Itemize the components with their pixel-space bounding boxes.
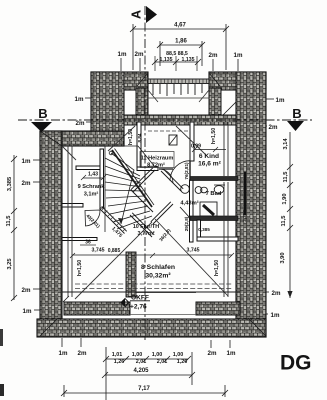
svg-text:43(2,01): 43(2,01) <box>85 213 101 229</box>
svg-text:1m: 1m <box>59 350 68 357</box>
headroom line top rooms <box>148 130 190 132</box>
svg-text:2m: 2m <box>22 287 31 294</box>
svg-text:2m: 2m <box>209 52 218 59</box>
svg-text:11,5: 11,5 <box>283 171 289 183</box>
hip: notch left small <box>148 90 158 102</box>
section marker A letter <box>129 10 143 19</box>
wall: schrank east <box>100 149 104 208</box>
svg-text:1,86: 1,86 <box>175 39 187 45</box>
svg-text:1m: 1m <box>22 158 31 165</box>
staircase <box>105 146 155 232</box>
svg-text:1,26: 1,26 <box>114 359 125 365</box>
shower in bad <box>200 202 217 216</box>
svg-text:h=1,50: h=1,50 <box>211 128 217 144</box>
svg-text:30,32m²: 30,32m² <box>145 273 171 280</box>
inner dim 0,99 <box>191 144 226 153</box>
wall: store south <box>197 237 238 241</box>
room label flur <box>133 224 159 237</box>
wall: stair chamfer SE lower <box>131 190 153 212</box>
scan smudge bottom left <box>0 384 4 396</box>
bad door diagonal <box>180 207 190 218</box>
inner dim 1,475 diagonal <box>110 226 123 239</box>
svg-text:4,205: 4,205 <box>133 368 149 374</box>
wall dim 36(2,8) diagonal <box>158 227 171 242</box>
hip: bedroom left leg <box>75 222 152 299</box>
wall: corridor north boundary <box>62 238 97 241</box>
svg-text:0,99: 0,99 <box>191 144 201 150</box>
svg-text:1m: 1m <box>75 96 84 103</box>
svg-text:2m: 2m <box>208 350 217 357</box>
svg-text:3,745: 3,745 <box>187 248 200 254</box>
flur column circle <box>181 185 190 194</box>
svg-text:h=1,50: h=1,50 <box>77 260 83 276</box>
dark edge line at bad east <box>244 172 246 215</box>
door arc heizraum <box>159 169 173 183</box>
2m dashed line bottom <box>75 284 232 289</box>
wall: heizraum west <box>137 122 141 170</box>
wall: top outer left block <box>91 72 148 90</box>
chimney symbol <box>169 135 177 145</box>
section marker A triangle <box>146 6 157 23</box>
wall: left step <box>40 131 124 146</box>
svg-text:2,01: 2,01 <box>157 359 168 365</box>
svg-text:8,72m²: 8,72m² <box>147 162 165 169</box>
svg-text:11,5: 11,5 <box>6 215 12 227</box>
wall: bottom outer <box>37 319 266 337</box>
hip: bedroom right leg <box>155 219 228 296</box>
wall dim 8,84 <box>137 133 142 142</box>
svg-text:2m: 2m <box>78 350 87 357</box>
svg-text:1,00: 1,00 <box>132 352 143 358</box>
wall: heizraum south stub <box>137 167 158 171</box>
left dimension chain <box>11 155 17 301</box>
svg-text:2m: 2m <box>272 290 281 297</box>
svg-text:7 Bad: 7 Bad <box>206 191 222 197</box>
svg-text:9 Schrank: 9 Schrank <box>78 184 106 190</box>
svg-text:8,84: 8,84 <box>137 133 142 142</box>
bottom contour labels <box>59 338 68 357</box>
section marker B left letter <box>38 106 47 121</box>
wall: flur chamfer low <box>130 213 154 237</box>
wall: hall/kind divider <box>190 122 194 161</box>
svg-text:1m: 1m <box>276 97 285 104</box>
svg-text:1m: 1m <box>271 312 280 319</box>
svg-text:1,90: 1,90 <box>282 193 288 204</box>
wall: schrank north <box>76 166 100 170</box>
bedroom floor edge <box>62 291 240 293</box>
svg-text:1,43: 1,43 <box>88 172 98 178</box>
wall: store west <box>197 220 201 238</box>
wall: stair chamfer NE <box>131 168 155 192</box>
corner hip marks on top walls <box>91 72 266 115</box>
wall: right outer <box>236 72 266 337</box>
room label schrank <box>78 184 106 198</box>
inner dim 36 <box>80 240 96 246</box>
svg-text:B: B <box>38 106 47 121</box>
wall: top outer right block <box>209 72 266 90</box>
top dimension 88,5/1,135 chain <box>152 51 201 71</box>
right contour labels <box>266 97 285 104</box>
top dimension 1,86 <box>157 41 205 66</box>
bottom dimension 4,205 <box>102 347 195 400</box>
wall: schlafen west duct <box>126 252 136 297</box>
svg-text:h=1,50: h=1,50 <box>128 129 134 145</box>
stair arrow <box>109 151 134 224</box>
room label kind <box>198 153 222 168</box>
svg-text:A: A <box>129 10 143 19</box>
wall: flur SE chamfer <box>151 202 173 224</box>
label DG <box>280 352 312 375</box>
svg-text:3,77m²: 3,77m² <box>137 231 154 237</box>
right chain arrow <box>287 291 292 298</box>
top contour labels 1m 2m left <box>118 51 144 71</box>
svg-text:OKFF: OKFF <box>131 295 149 302</box>
bottom dimension 7,17 <box>61 385 228 397</box>
right dimension chain <box>287 132 293 298</box>
svg-text:16,6 m²: 16,6 m² <box>198 161 222 168</box>
inner dim 3,745 pair <box>70 248 234 259</box>
headroom text h=1,50 top right <box>211 128 217 144</box>
upper-left contour labels 1m 2m <box>75 96 91 103</box>
svg-text:2,01: 2,01 <box>136 359 147 365</box>
svg-text:2m: 2m <box>76 120 85 127</box>
wall: bedroom south sill wall left <box>64 302 130 315</box>
h=1.50 line kind room <box>224 122 228 176</box>
svg-text:h=1,50: h=1,50 <box>214 260 220 276</box>
wall: schrank south <box>62 204 83 208</box>
svg-text:11,5: 11,5 <box>281 215 287 227</box>
svg-text:36: 36 <box>85 240 91 246</box>
section line B-B horizontal <box>18 119 312 121</box>
h=1.50 line right <box>224 182 228 297</box>
section marker B left triangle <box>31 122 52 132</box>
svg-text:76(2,81): 76(2,81) <box>184 162 189 180</box>
wall: bad south <box>190 216 238 221</box>
svg-text:2m: 2m <box>22 180 31 187</box>
corner tick <box>63 296 69 302</box>
svg-text:DG: DG <box>280 352 312 375</box>
section marker B right letter <box>292 106 301 121</box>
door arc kind <box>170 161 190 181</box>
wall: flur east chamfer <box>161 169 183 191</box>
svg-text:3,385: 3,385 <box>7 176 13 191</box>
svg-text:1,26: 1,26 <box>177 359 188 365</box>
top contour labels 2m 1m right <box>209 52 243 71</box>
inner dim 43(2,01) diagonal <box>85 213 101 229</box>
hip: kind room diagonal <box>176 126 206 155</box>
wall dim 0,385 small <box>198 227 210 232</box>
inner dim 1,43 <box>81 172 106 181</box>
wall: left outer <box>40 131 62 336</box>
svg-text:1m: 1m <box>227 350 236 357</box>
balcony door lines middle <box>130 293 196 315</box>
h=1.50 line left <box>68 146 72 297</box>
terrace parapet with railing posts <box>148 79 209 98</box>
headroom text h=1,50 bottom left <box>77 260 83 276</box>
svg-text:1,00: 1,00 <box>173 352 184 358</box>
room label heizraum <box>140 152 174 169</box>
door arc schrank <box>85 210 100 226</box>
svg-text:1,00: 1,00 <box>152 352 163 358</box>
svg-text:3,385: 3,385 <box>242 210 247 222</box>
svg-text:8 Schlafen: 8 Schlafen <box>141 264 175 271</box>
svg-text:2m: 2m <box>269 124 278 131</box>
wall: terrace notch left cheek <box>136 88 148 117</box>
svg-text:B: B <box>292 106 301 121</box>
wall: inner top wall under notch <box>105 115 238 125</box>
wall dim 29(2,8) <box>184 216 189 231</box>
left contour labels <box>22 158 40 165</box>
bad fixtures: wc <box>195 187 207 194</box>
svg-text:1m: 1m <box>118 51 127 58</box>
svg-text:6 Kind: 6 Kind <box>199 153 219 160</box>
wall: terrace notch right cheek <box>209 88 221 117</box>
wall: bad west <box>190 180 194 242</box>
svg-text:3,745: 3,745 <box>92 248 105 254</box>
section marker B right triangle <box>287 121 304 131</box>
wall dim 3,385 small right <box>242 210 247 222</box>
svg-text:4,43m²: 4,43m² <box>180 200 198 207</box>
hip: notch right small <box>199 90 209 102</box>
svg-text:11 Heizraum: 11 Heizraum <box>141 156 174 162</box>
bad fixtures: basin <box>214 185 225 194</box>
top dimension 4,67 <box>130 24 229 70</box>
svg-text:1m: 1m <box>234 52 243 59</box>
hip: heizraum diagonal <box>108 126 135 151</box>
inner dim 0,885 <box>108 248 121 254</box>
OKFF level marker <box>121 295 150 311</box>
section line A-A vertical <box>144 6 146 340</box>
svg-text:7,17: 7,17 <box>138 386 150 392</box>
room label schlafen <box>141 264 175 280</box>
headroom text h=1,50 bottom right <box>214 260 220 276</box>
wall: bedroom south sill wall right <box>196 302 240 315</box>
svg-text:3,1m²: 3,1m² <box>84 191 99 198</box>
wall dim 76(2,81) <box>184 162 189 180</box>
svg-text:0,885: 0,885 <box>108 248 121 254</box>
svg-text:1m: 1m <box>23 308 32 315</box>
svg-text:4,67: 4,67 <box>174 23 186 29</box>
hip: left strip diagonal <box>62 146 76 160</box>
svg-text:3,14: 3,14 <box>283 138 289 150</box>
corner hip marks bottom <box>40 131 266 336</box>
room label bad <box>180 191 222 207</box>
svg-text:0,385: 0,385 <box>198 227 210 232</box>
svg-text:10 Flur/TH: 10 Flur/TH <box>133 224 159 230</box>
wall: kind/bad divider <box>190 177 238 181</box>
svg-text:1,01: 1,01 <box>112 352 123 358</box>
headroom text h=1,50 top left <box>128 129 134 145</box>
svg-text:3,90: 3,90 <box>280 252 286 263</box>
wall: upper-left outer <box>91 72 124 146</box>
bottom dimension chain small <box>103 356 191 362</box>
stair railing diagonal <box>112 149 154 208</box>
svg-text:+2,76: +2,76 <box>130 304 147 311</box>
scan smudge left edge <box>0 329 3 346</box>
svg-text:29(2,8): 29(2,8) <box>184 216 189 231</box>
svg-text:3,25: 3,25 <box>7 258 13 270</box>
svg-text:2m: 2m <box>135 51 144 58</box>
wall: corridor NW diagonal <box>100 206 127 233</box>
